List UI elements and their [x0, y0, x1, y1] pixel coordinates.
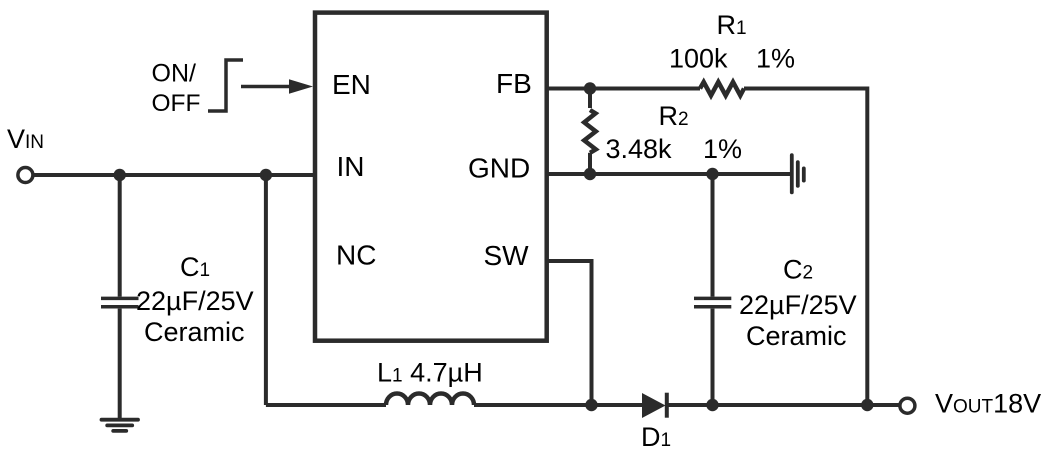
svg-text:FB: FB	[496, 68, 532, 99]
step waveform symbol	[208, 60, 243, 111]
svg-text:Ceramic: Ceramic	[746, 321, 847, 351]
wire C2 top lead	[711, 174, 715, 297]
wire diode to output	[667, 403, 899, 407]
junction L1 tap	[260, 169, 272, 181]
junction C2 top	[706, 168, 718, 180]
svg-text:22µF/25V: 22µF/25V	[136, 286, 254, 316]
diode D1	[642, 393, 667, 418]
arrow into EN	[241, 79, 313, 93]
node VOUT terminal	[900, 398, 915, 413]
resistor R1	[700, 82, 744, 96]
svg-text:D1: D1	[641, 422, 671, 450]
svg-text:3.48k: 3.48k	[606, 134, 673, 164]
svg-text:VIN: VIN	[7, 124, 44, 154]
wire GND pin to ground	[547, 172, 790, 176]
wire R1 to right rail	[744, 89, 867, 406]
junction SW to rail	[585, 399, 597, 411]
junction C2 to rail	[706, 399, 718, 411]
label R2	[606, 101, 743, 164]
label C2 value	[739, 255, 857, 352]
wire VIN to IN pin	[33, 173, 315, 177]
junction R1 rail to output	[861, 399, 873, 411]
svg-text:ON/: ON/	[152, 60, 197, 88]
ground earth symbol under C1	[102, 420, 139, 431]
junction C1 tap	[114, 169, 126, 181]
ground symbol at GND (rotated earth)	[792, 155, 804, 192]
svg-text:R2: R2	[659, 101, 689, 131]
svg-text:L1 4.7µH: L1 4.7µH	[377, 358, 483, 388]
svg-text:EN: EN	[332, 69, 371, 100]
label ON/OFF	[152, 60, 201, 117]
svg-text:22µF/25V: 22µF/25V	[739, 290, 857, 320]
wire C2 bottom lead	[711, 309, 715, 405]
junction R2 bottom	[584, 168, 596, 180]
wire C1 top lead	[118, 175, 122, 297]
svg-text:1%: 1%	[756, 44, 795, 74]
svg-text:SW: SW	[484, 240, 530, 271]
svg-text:OFF: OFF	[152, 90, 201, 117]
node VIN terminal	[18, 168, 33, 183]
wire bottom rail left	[266, 403, 386, 407]
capacitor C1	[101, 298, 139, 306]
svg-text:1%: 1%	[703, 134, 742, 164]
svg-text:IN: IN	[337, 151, 365, 182]
inductor L1	[386, 394, 474, 406]
svg-text:R1: R1	[717, 10, 747, 40]
junction FB node	[584, 82, 596, 94]
wire SW branch	[547, 261, 592, 405]
IC U1 box	[315, 13, 547, 341]
wire bottom rail middle	[474, 403, 643, 407]
capacitor C2	[694, 298, 731, 306]
svg-text:Ceramic: Ceramic	[144, 317, 245, 347]
svg-text:VOUT18V: VOUT18V	[935, 389, 1041, 419]
svg-text:100k: 100k	[669, 44, 728, 74]
label C1 value	[136, 252, 254, 347]
wire down from IN node to bottom rail	[264, 175, 268, 405]
svg-text:NC: NC	[336, 240, 376, 271]
svg-text:C1: C1	[180, 252, 210, 282]
resistor R2	[584, 89, 596, 175]
svg-text:C2: C2	[783, 255, 813, 285]
wire C1 bottom lead	[118, 309, 122, 420]
label R1	[669, 10, 795, 74]
wire FB to R2 top	[547, 87, 700, 91]
svg-text:GND: GND	[468, 153, 530, 184]
